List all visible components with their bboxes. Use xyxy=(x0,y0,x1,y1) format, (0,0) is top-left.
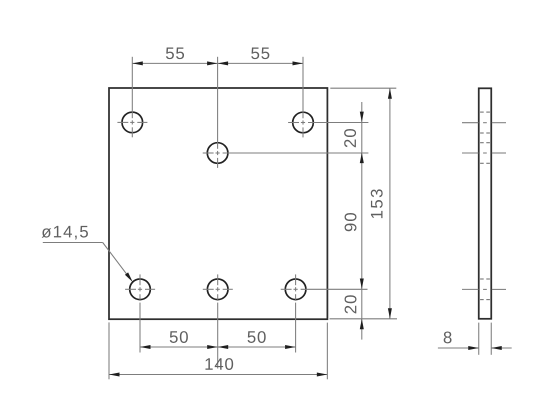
hidden line top holes lower xyxy=(480,132,490,134)
label 50 left xyxy=(170,331,188,343)
hole H2 top-right xyxy=(293,112,314,133)
side view centerline bottom holes xyxy=(462,288,506,290)
extension line 8 right xyxy=(490,323,492,355)
hole H6 bottom-right xyxy=(285,279,306,300)
extension line 140 right xyxy=(326,323,328,380)
extension line 140 left xyxy=(108,322,110,379)
hole H4 bottom-left xyxy=(130,279,151,300)
extension line bottom edge right xyxy=(330,318,398,320)
arrow 90 down xyxy=(360,279,364,290)
arrow 140 left xyxy=(109,373,120,377)
arrow left 50 xyxy=(140,345,151,349)
arrow mid-right 55 xyxy=(218,61,229,65)
arrow mid-left 50 xyxy=(207,345,218,349)
dimension line 153 xyxy=(389,88,391,319)
hidden line middle hole upper xyxy=(480,142,490,144)
arrow 90 up xyxy=(360,153,364,164)
label 140 xyxy=(205,358,233,370)
centerline hole H1 xyxy=(117,57,147,138)
hidden line bottom holes upper xyxy=(480,278,490,280)
arrow 8 right xyxy=(491,346,502,350)
arrow 153 bottom xyxy=(388,308,392,319)
hole H5 bottom-middle xyxy=(207,279,228,300)
arrow 140 right xyxy=(317,373,328,377)
label 20 bottom rotated xyxy=(345,295,357,313)
side view centerline top holes xyxy=(462,122,506,124)
label 55 right xyxy=(251,47,269,59)
label 50 right xyxy=(248,331,266,343)
arrow 153 top xyxy=(388,88,392,99)
label diameter 14,5 xyxy=(42,226,88,240)
centerline hole H6 xyxy=(281,274,368,352)
arrow mid-left 55 xyxy=(207,61,218,65)
hole H1 top-left xyxy=(122,112,143,133)
centerline hole H2 xyxy=(288,57,368,138)
hidden line top holes upper xyxy=(480,111,490,113)
arrow 20 bottom up xyxy=(360,319,364,330)
arrow right 50 xyxy=(285,345,296,349)
dimension line 50/50 bottom xyxy=(140,346,296,348)
arrow mid-right 50 xyxy=(218,345,229,349)
label 153 rotated xyxy=(371,189,383,218)
label 90 rotated xyxy=(345,213,357,231)
extension line 8 left xyxy=(478,323,480,355)
dimension line 55/55 top xyxy=(132,62,303,64)
extension line top edge right xyxy=(330,87,396,89)
arrow left 55 xyxy=(132,61,143,65)
dimension line 8 right tail xyxy=(491,347,511,349)
hidden line middle hole lower xyxy=(480,162,490,164)
arrow 20 top down xyxy=(360,112,364,123)
leader line xyxy=(43,243,130,278)
arrow right 55 xyxy=(293,61,304,65)
plate front view outline xyxy=(109,88,327,319)
dimension line 140 xyxy=(109,374,327,376)
arrow 8 left xyxy=(468,346,479,350)
leader arrow xyxy=(125,272,133,282)
label 8 xyxy=(444,331,452,343)
dimension line 20/90/20 chain right xyxy=(361,102,363,340)
label 20 top rotated xyxy=(344,129,356,147)
side view outline xyxy=(479,88,492,318)
dimension line 8 left tail xyxy=(438,347,479,349)
hole H3 middle xyxy=(207,143,228,164)
label 55 left xyxy=(166,47,184,59)
centerline hole H3 xyxy=(203,57,369,168)
centerline hole H4 xyxy=(125,274,155,352)
side view centerline middle hole xyxy=(462,152,506,154)
hidden line bottom holes lower xyxy=(480,299,490,301)
centerline hole H5 xyxy=(203,274,233,368)
